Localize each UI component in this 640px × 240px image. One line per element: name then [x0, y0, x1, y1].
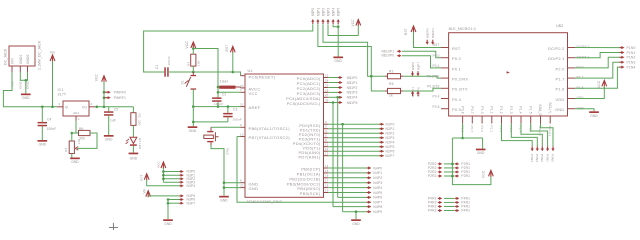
junction L1: [217, 86, 220, 89]
svg-text:VCC: VCC: [185, 41, 189, 49]
svg-text:N2P5: N2P5: [386, 145, 395, 149]
net flag P3N1: [547, 146, 549, 149]
svg-text:GND: GND: [105, 138, 113, 142]
svg-text:N2P7: N2P7: [386, 154, 395, 158]
junction trimmer tap: [71, 132, 74, 135]
svg-text:100nF: 100nF: [167, 56, 171, 65]
ground below N4P rows: [351, 219, 361, 221]
net flag N4P8: [367, 206, 369, 208]
svg-text:P3N3: P3N3: [535, 154, 539, 162]
wire bottom pin to P3N2: [521, 124, 542, 147]
svg-text:P1.3: P1.3: [509, 106, 513, 113]
wire R1 to BLE RX: [403, 76, 441, 78]
svg-text:5: 5: [325, 134, 327, 138]
net flag N4P4: [367, 187, 369, 189]
svg-text:N4P9: N4P9: [373, 210, 382, 214]
svg-text:N2P0: N2P0: [386, 123, 395, 127]
svg-text:R6: R6: [79, 127, 84, 131]
svg-text:N3P7: N3P7: [187, 201, 196, 205]
svg-text:LED: LED: [138, 143, 142, 150]
svg-text:P0.7: P0.7: [470, 126, 474, 133]
svg-text:P0.2/RX: P0.2/RX: [452, 77, 468, 82]
svg-text:N$P4: N$P4: [332, 8, 336, 17]
svg-text:RST: RST: [140, 174, 144, 181]
junction C2/gnd rail: [217, 105, 220, 108]
svg-text:N$P7: N$P7: [416, 62, 420, 70]
pin VO stub: [89, 106, 95, 108]
svg-text:P1.1: P1.1: [490, 126, 494, 133]
svg-text:P2.0: P2.0: [555, 66, 565, 71]
wire to ground: [167, 200, 169, 220]
junction C4 tap: [41, 106, 44, 109]
svg-text:N$1P0: N$1P0: [347, 76, 358, 80]
net flag N3P7: [179, 202, 181, 204]
resistor R6 1k: [388, 88, 401, 93]
net flag P3N0: [552, 146, 554, 149]
junction VCC rail: [192, 47, 195, 50]
svg-text:GND: GND: [189, 129, 197, 133]
net flag N$1P2: [338, 87, 340, 89]
svg-text:15: 15: [325, 169, 329, 173]
svg-text:13uH: 13uH: [220, 80, 229, 84]
resistor R1: [388, 74, 401, 79]
svg-text:N2P4: N2P4: [386, 141, 395, 145]
svg-text:2: 2: [325, 120, 327, 124]
svg-text:R6: R6: [389, 82, 394, 86]
svg-text:2.1MM_DC_JACK: 2.1MM_DC_JACK: [38, 40, 42, 70]
svg-text:N$P6: N$P6: [411, 62, 415, 70]
wire R2 to LED: [132, 125, 134, 137]
junction C3 top: [227, 105, 230, 108]
wire trimmer bottom: [71, 154, 73, 158]
net flag N$1P4: [338, 96, 340, 98]
junction P2R row1: [451, 163, 454, 166]
net flag N4P3: [367, 182, 369, 184]
net flag N2P6: [380, 150, 382, 152]
pin VIN stub: [11, 66, 13, 72]
wire Vin to N3P5: [148, 195, 179, 197]
wire XTAL1 row: [211, 126, 241, 128]
svg-text:19: 19: [325, 188, 329, 192]
ground below S1: [188, 126, 198, 128]
svg-text:100nF: 100nF: [233, 118, 242, 122]
svg-text:N4P2: N4P2: [373, 176, 382, 180]
capacitor C4 100nF: [41, 107, 43, 122]
svg-text:N$P3: N$P3: [326, 8, 330, 17]
svg-text:2: 2: [91, 102, 93, 106]
svg-text:R2: R2: [138, 114, 142, 118]
svg-text:P1.4: P1.4: [519, 106, 523, 113]
svg-text:PWRF1: PWRF1: [114, 96, 126, 100]
junction SDA column: [336, 96, 339, 99]
svg-text:P3N4: P3N4: [530, 154, 534, 162]
trimmer R3 10k: [69, 141, 74, 154]
svg-text:RST: RST: [433, 43, 440, 47]
net flag N4P6: [367, 196, 369, 198]
pin GND1 stub: [19, 66, 21, 72]
svg-text:VCC: VCC: [249, 91, 258, 96]
svg-text:P0.5: P0.5: [432, 105, 439, 109]
microcontroller U1 ATMEGA328P_PDIP: [245, 74, 324, 197]
svg-text:N2P3: N2P3: [386, 136, 395, 140]
wire C3 down: [227, 117, 229, 122]
junction: [461, 137, 464, 140]
svg-text:21: 21: [240, 103, 244, 107]
svg-text:P1N2: P1N2: [627, 56, 636, 60]
wire DD/P2.1 to P1N1: [575, 53, 620, 58]
net flag N4P9: [367, 211, 369, 213]
net flag N2P4: [380, 141, 382, 143]
svg-text:DD/P2.1: DD/P2.1: [548, 56, 564, 61]
net flag N2P5: [380, 146, 382, 148]
net flag N4P0: [367, 167, 369, 169]
svg-text:8: 8: [240, 179, 242, 183]
net flag P3N3: [536, 146, 538, 149]
capacitor C2 100nF: [212, 97, 221, 99]
inductor L1 13uH: [219, 86, 235, 89]
wire N3P7 row: [168, 202, 180, 204]
svg-text:GND: GND: [477, 151, 485, 155]
wire R6 to BLE TX: [403, 88, 441, 91]
wire DC/P2.2 to P1N0: [575, 47, 620, 49]
svg-text:GND: GND: [220, 198, 228, 202]
wire bottom pin to P3N4: [502, 124, 533, 147]
svg-text:P1.0: P1.0: [480, 106, 484, 113]
wire RST stem: [232, 52, 234, 72]
svg-text:P0.1: P0.1: [452, 66, 461, 71]
junction GND pin 22: [223, 186, 226, 189]
junction VO: [96, 106, 99, 109]
svg-text:GND1: GND1: [19, 80, 23, 89]
wire L1 to AVCC: [240, 86, 242, 89]
svg-text:3: 3: [325, 125, 327, 129]
svg-text:RST: RST: [225, 45, 229, 52]
net flag N4P7: [367, 201, 369, 203]
wire to ground: [482, 138, 484, 149]
svg-text:GND: GND: [334, 59, 342, 63]
wire VDD to VCC: [575, 86, 604, 98]
wire GND1-GND2 join: [20, 72, 27, 80]
svg-text:VI: VI: [65, 105, 68, 109]
svg-text:C2: C2: [222, 93, 227, 97]
svg-text:7: 7: [240, 88, 242, 92]
svg-text:18: 18: [325, 184, 329, 188]
svg-text:U$2: U$2: [556, 24, 563, 28]
wire C1 to reset node: [169, 71, 193, 73]
net flag N2P2: [380, 132, 382, 134]
wire RST to BLE: [414, 32, 442, 48]
svg-text:N$1P4: N$1P4: [347, 96, 358, 100]
junction gnd tap: [355, 210, 358, 213]
svg-text:PB5(SCK): PB5(SCK): [300, 191, 321, 196]
wire to ground: [355, 212, 357, 220]
wire N$P1 to R6: [318, 24, 382, 91]
svg-text:P4R2: P4R2: [428, 209, 437, 213]
svg-text:N4P8: N4P8: [373, 205, 382, 209]
wire ADJ down: [75, 121, 77, 134]
wire VO to R2: [132, 107, 134, 113]
ground under LED: [129, 153, 139, 155]
svg-text:N3P4: N3P4: [187, 184, 196, 188]
net flag N2P1: [380, 128, 382, 130]
wire bottom pin to P3N3: [511, 124, 537, 147]
svg-text:P1N1: P1N1: [627, 51, 636, 55]
svg-text:N4P0: N4P0: [373, 166, 382, 170]
svg-text:PB7(XTAL2/TOSC2): PB7(XTAL2/TOSC2): [249, 135, 291, 140]
junction SCL column: [332, 101, 335, 104]
wire GND pin down: [575, 109, 594, 112]
wire VIN net to IC1: [3, 72, 57, 107]
junction on RX row: [370, 75, 373, 78]
wire N4P6 row: [338, 196, 371, 198]
junction RXD column: [341, 123, 344, 126]
svg-text:12: 12: [325, 147, 329, 151]
net flag N4P1: [367, 172, 369, 174]
svg-text:P3N0: P3N0: [551, 154, 555, 162]
wire P2.0 to P1N2: [575, 57, 620, 68]
wire S1 to gnd rail: [192, 90, 194, 107]
wire VCC stem: [103, 82, 105, 107]
net flag N$0P0: [426, 40, 428, 43]
svg-text:DC_JACK: DC_JACK: [4, 48, 8, 65]
svg-text:N2P2: N2P2: [386, 132, 395, 136]
net flag N3P6: [179, 199, 181, 201]
junction: [167, 202, 170, 205]
svg-text:PD7(AIN1): PD7(AIN1): [298, 154, 320, 159]
wire N$P2 to R1: [323, 24, 382, 76]
svg-text:R1: R1: [389, 70, 394, 74]
net flag N3P2: [179, 178, 181, 180]
svg-text:C4: C4: [47, 117, 52, 121]
svg-text:23: 23: [325, 73, 329, 77]
junction R4/S1: [192, 71, 195, 74]
svg-text:9: 9: [240, 123, 242, 127]
svg-text:S1: S1: [180, 80, 184, 84]
junction VCC pin: [217, 91, 220, 94]
svg-text:D1: D1: [138, 138, 142, 142]
wire XTAL2 row: [237, 136, 241, 138]
svg-text:N$1P5: N$1P5: [347, 101, 358, 105]
wire VCC rail to C2/L1: [193, 49, 218, 100]
svg-text:17: 17: [325, 179, 329, 183]
svg-text:N$P1: N$P1: [316, 8, 320, 17]
svg-text:VCC: VCC: [482, 170, 486, 178]
regulator IC1 317T: [63, 101, 89, 116]
svg-text:10k: 10k: [77, 138, 81, 144]
svg-text:P1.5: P1.5: [528, 106, 532, 113]
junction: [192, 121, 195, 124]
svg-text:P3N1: P3N1: [545, 154, 549, 162]
wire bottom pin to P3N1: [531, 124, 548, 147]
wire bottom pin to P3N0: [541, 124, 554, 147]
net flag N3P3: [179, 181, 181, 183]
junction: [167, 198, 170, 201]
svg-text:1: 1: [240, 72, 242, 76]
svg-text:28: 28: [325, 98, 329, 102]
net flag N2P7: [380, 155, 382, 157]
junction: [25, 79, 28, 82]
svg-text:1k: 1k: [389, 94, 393, 98]
svg-text:C1: C1: [155, 64, 159, 69]
svg-text:VDD: VDD: [556, 97, 565, 102]
svg-text:C5: C5: [114, 108, 119, 112]
ground below U1: [219, 196, 229, 198]
ground top: [333, 57, 343, 59]
net flag N$1P0: [338, 77, 340, 79]
wire C2 down: [217, 102, 219, 107]
svg-text:P0.2/RX: P0.2/RX: [427, 74, 440, 78]
wire SCL column down: [332, 103, 334, 207]
svg-text:ATMEGA328P_PDIP: ATMEGA328P_PDIP: [247, 200, 283, 204]
svg-text:GND1: GND1: [19, 54, 23, 64]
junction P2R row4: [451, 175, 454, 178]
svg-text:VCC: VCC: [95, 73, 99, 81]
junction: [337, 26, 340, 29]
junction Vin: [51, 106, 54, 109]
svg-text:C3: C3: [233, 108, 238, 112]
svg-text:PC6(RESET): PC6(RESET): [249, 74, 276, 79]
svg-text:P1N0: P1N0: [627, 46, 636, 50]
wire VCC to rows: [162, 168, 164, 182]
svg-text:P1N3: P1N3: [627, 61, 636, 65]
capacitor C5 1uF: [108, 107, 110, 112]
junction gnd rail: [192, 105, 195, 108]
wire LED to ground: [132, 146, 134, 153]
wire to ground: [25, 80, 27, 93]
net flag N$1P3: [338, 91, 340, 93]
svg-text:RST: RST: [452, 46, 461, 51]
ground under C5: [104, 135, 114, 137]
net flag N$1P1: [338, 82, 340, 84]
svg-text:27: 27: [325, 93, 329, 97]
origin mark inside U$2: [507, 71, 510, 73]
svg-text:P0.3/TX: P0.3/TX: [427, 85, 440, 89]
svg-text:N$1P3: N$1P3: [347, 91, 358, 95]
net flag N2P3: [380, 137, 382, 139]
wire to ground: [192, 107, 194, 127]
svg-text:U1: U1: [248, 69, 253, 73]
svg-text:XTAL: XTAL: [226, 147, 230, 155]
wire Vin flag stem: [52, 61, 54, 107]
svg-text:N2P1: N2P1: [386, 127, 395, 131]
svg-text:GND: GND: [249, 186, 259, 191]
svg-text:P1.7: P1.7: [555, 77, 564, 82]
svg-text:317T: 317T: [58, 93, 67, 97]
svg-text:14: 14: [325, 164, 329, 168]
svg-text:P0.0: P0.0: [452, 56, 462, 61]
svg-text:P0.6: P0.6: [460, 106, 464, 113]
wire GND pin 8 row: [224, 182, 241, 184]
wire VCC pin row: [218, 91, 241, 93]
svg-text:N4P6: N4P6: [373, 196, 382, 200]
wire N4P9 row: [343, 211, 371, 213]
wire split rail: [452, 137, 482, 139]
svg-text:16: 16: [325, 174, 329, 178]
wire N$P0 flag to C1: [144, 24, 313, 72]
net flag P3N2: [541, 146, 543, 149]
switch S1: [192, 72, 194, 76]
junction PWRF1: [103, 96, 106, 99]
net flag N$0P1: [432, 40, 434, 43]
svg-text:VCC: VCC: [597, 80, 601, 88]
connector X1 DC_JACK 2.1MM_DC_JACK: [9, 46, 35, 66]
svg-text:N$10P0: N$10P0: [382, 53, 395, 57]
svg-text:1uF: 1uF: [110, 119, 116, 123]
svg-text:N4P7: N4P7: [373, 201, 382, 205]
pin ADJ stub: [75, 116, 77, 121]
svg-text:PB6(XTAL1/TOSC1): PB6(XTAL1/TOSC1): [249, 126, 291, 131]
pin VI stub: [57, 106, 63, 108]
net flag N4P2: [367, 177, 369, 179]
wire VCC to R4: [192, 48, 194, 54]
svg-text:GND: GND: [555, 107, 564, 112]
ground in N3P group: [163, 219, 173, 221]
svg-text:Vin: Vin: [142, 188, 146, 193]
svg-text:P3N2: P3N2: [540, 154, 544, 162]
pin GND2 stub: [27, 66, 29, 72]
svg-text:N$P5: N$P5: [337, 8, 341, 17]
svg-text:N$0P1: N$0P1: [431, 28, 435, 38]
svg-text:GND: GND: [590, 114, 598, 118]
svg-text:N$0P0: N$0P0: [426, 28, 430, 38]
svg-text:11: 11: [325, 143, 329, 147]
ground under trimmer: [70, 158, 80, 160]
svg-text:R4: R4: [187, 62, 191, 66]
wire column to N4P9 row: [342, 124, 344, 212]
wire N4P8 row: [333, 206, 371, 208]
junction GND pin 8: [223, 181, 226, 184]
wire VCC stem: [357, 26, 359, 36]
ground: [21, 94, 31, 96]
wire SDA column down: [337, 97, 339, 197]
wire P1.6 to P1N4: [575, 67, 620, 88]
net flag N3P1: [179, 174, 181, 176]
wire N$10P0 to P0.1: [402, 56, 441, 68]
svg-text:N$P2: N$P2: [321, 8, 325, 17]
wire reset node to pin 1: [193, 72, 240, 76]
ground below U$2: [476, 149, 486, 151]
svg-text:10k: 10k: [197, 60, 201, 66]
svg-text:BLE_MICRO1.0: BLE_MICRO1.0: [449, 27, 476, 31]
svg-text:P1N4: P1N4: [627, 65, 636, 69]
svg-text:P0.1: P0.1: [432, 64, 439, 68]
svg-text:P0.5: P0.5: [452, 107, 461, 112]
wire R6 to trimmer wiper: [77, 133, 97, 148]
ground right of U$2: [589, 111, 599, 113]
svg-text:N4P1: N4P1: [373, 171, 382, 175]
net flag N2P0: [380, 123, 382, 125]
svg-text:DC/P2.2: DC/P2.2: [548, 46, 564, 51]
svg-text:22: 22: [240, 184, 244, 188]
svg-text:N4P5: N4P5: [373, 191, 382, 195]
capacitor C3 100nF: [227, 107, 229, 113]
module U$2 BLE_MICRO1.0: [449, 33, 568, 116]
svg-text:P1.6: P1.6: [555, 87, 564, 92]
wire GND pin 22 row: [224, 187, 241, 189]
svg-text:VCC: VCC: [351, 19, 355, 27]
resistor R2 220: [131, 113, 136, 126]
svg-text:N$1P1: N$1P1: [347, 81, 358, 85]
svg-text:N4P4: N4P4: [373, 186, 382, 190]
svg-text:P1.0: P1.0: [480, 126, 484, 133]
svg-text:P4R1: P4R1: [461, 209, 470, 213]
wire P0.6 down: [462, 124, 464, 139]
wire C3 gnd link: [193, 121, 228, 123]
svg-text:AREF: AREF: [249, 105, 261, 110]
capacitor C1 100nF: [164, 67, 166, 76]
wire gnd/AREF rail: [193, 106, 240, 108]
svg-text:P2R1: P2R1: [461, 174, 470, 178]
